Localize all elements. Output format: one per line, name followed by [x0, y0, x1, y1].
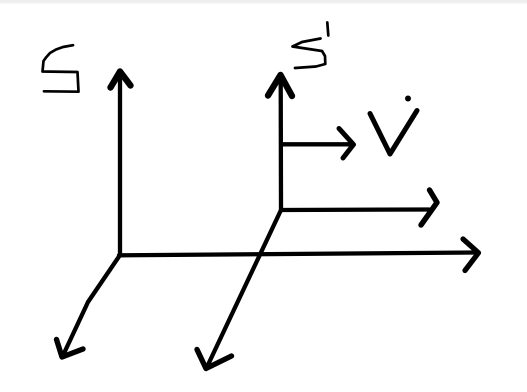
frame S vertical axis arrowhead [111, 72, 131, 88]
label S' apostrophe [327, 23, 328, 36]
frame S' diagonal axis wire [207, 210, 282, 368]
frame S' diagonal axis arrowhead [197, 350, 232, 369]
label S' (frame S prime) [293, 39, 326, 69]
label V overdot [405, 96, 411, 102]
frame S diagonal axis arrowhead [57, 340, 84, 358]
frame S horizontal axis wire [119, 253, 476, 256]
velocity vector V arrowhead [339, 129, 354, 159]
frame S vertical axis wire [118, 73, 122, 255]
frame S' vertical axis arrowhead [268, 75, 292, 96]
top window edge band [0, 0, 527, 4]
label V [370, 111, 417, 155]
label S (frame S) [43, 45, 79, 91]
frame S' vertical axis wire [279, 77, 284, 210]
frame S' horizontal axis wire [281, 207, 429, 212]
frame S horizontal axis arrowhead [463, 239, 479, 271]
velocity vector V arrow wire [282, 142, 352, 146]
frame S' horizontal axis arrowhead [421, 190, 437, 225]
frame S diagonal axis wire [63, 255, 121, 357]
